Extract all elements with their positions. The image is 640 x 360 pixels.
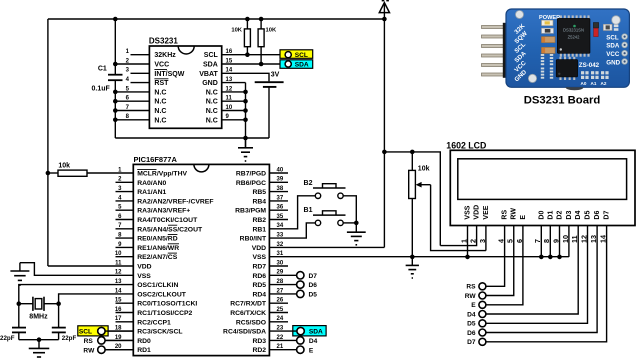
svg-text:VDD: VDD <box>474 205 481 220</box>
wire SCL connector to PIC pin 18 <box>105 330 133 332</box>
svg-text:17: 17 <box>115 316 122 322</box>
svg-text:3V: 3V <box>271 72 280 79</box>
wire potentiometer wiper to LCD VEE <box>431 185 486 251</box>
svg-text:RD0: RD0 <box>137 338 151 345</box>
wire DS3231 pin 9 (N.C) <box>222 119 246 121</box>
svg-text:15: 15 <box>115 298 122 304</box>
svg-text:RD3: RD3 <box>252 338 266 345</box>
pin label RE1/AN6/WR PIC <box>137 244 179 252</box>
pin number 9 PIC <box>118 242 122 248</box>
connector RW (to LCD) <box>465 292 486 300</box>
pin number 5 LCD (rotated) <box>506 239 515 243</box>
wire PIC pin 32 stub <box>0 0 1 1</box>
pin number 20 PIC <box>115 344 122 350</box>
svg-text:VBAT: VBAT <box>199 71 218 78</box>
wire PIC pin 11 stub <box>0 0 1 1</box>
pin label RA5/AN4/SS/C2OUT PIC <box>137 225 203 233</box>
push button B1 <box>313 211 346 226</box>
svg-text:RA5/AN4/SS/C2OUT: RA5/AN4/SS/C2OUT <box>137 226 203 233</box>
pin number 10 LCD (rotated) <box>561 235 570 243</box>
svg-text:36: 36 <box>277 205 284 211</box>
pin label RD0 PIC <box>137 338 151 345</box>
pin number 11 LCD (rotated) <box>570 235 579 243</box>
wire DS3231 pin 10 (N.C) <box>222 110 246 112</box>
pin label GND DS3231 <box>202 80 218 87</box>
svg-text:RS: RS <box>502 210 509 220</box>
pin label RB5 PIC <box>252 189 266 196</box>
svg-text:N.C: N.C <box>206 89 218 96</box>
chip PIC16F877A body <box>133 164 269 355</box>
junction ground bus / potentiometer <box>410 255 415 260</box>
svg-text:Z5242: Z5242 <box>568 35 581 40</box>
svg-text:1602 LCD: 1602 LCD <box>446 140 486 150</box>
pin label SCL DS3231 <box>204 52 219 59</box>
photo DS3231 RTC module board <box>482 9 630 90</box>
svg-text:24: 24 <box>277 316 284 322</box>
wire PIC pin 38 stub <box>269 191 288 193</box>
pin label RB1 PIC <box>252 226 266 233</box>
pin label RD5 PIC <box>252 282 266 289</box>
wire DS3231 GND pin 13 to NC bus <box>222 82 246 84</box>
wire DS3231 pin 4 (RST) <box>131 82 150 84</box>
connector D6 (to PIC pin 28) <box>297 281 318 289</box>
wire VSS pin 12 to ground <box>20 263 133 276</box>
capacitor C1 <box>108 75 123 81</box>
pin label RB7/PGD PIC <box>236 171 266 178</box>
junction ground link / N.C bus <box>243 136 248 141</box>
junction rail / R1 <box>245 17 250 22</box>
wire LCD pin 2 VDD to +5V <box>440 226 476 246</box>
pin label D7 LCD (rotated) <box>604 211 611 220</box>
wire LCD pin 11 D4 to D4 connector <box>486 226 578 315</box>
pin number 30 PIC <box>277 260 284 266</box>
svg-text:RW: RW <box>83 347 95 354</box>
pin label VDD PIC <box>137 264 151 271</box>
svg-text:RW: RW <box>465 293 477 300</box>
wire PIC pin 30 stub <box>269 265 288 267</box>
svg-text:39: 39 <box>277 177 284 183</box>
pin label RC3/SCK/SCL PIC <box>137 329 182 336</box>
wire bottom ground link under DS3231 <box>115 137 269 139</box>
junction crystal left node <box>17 301 22 306</box>
wire OSC1 pin 13 to crystal <box>19 285 134 304</box>
wire PIC pin 9 stub <box>116 246 134 248</box>
pin label RA4/T0CKI/C1OUT PIC <box>137 217 198 224</box>
ground symbol at PIC VSS pin 12 <box>10 263 29 285</box>
svg-text:E: E <box>520 215 527 220</box>
wire LCD pin 4 RS to RS connector <box>486 226 505 287</box>
pin label N.C DS3231 <box>206 117 218 124</box>
pin number 6 LCD (rotated) <box>515 239 524 243</box>
wire PIC pin 13 stub <box>0 0 1 1</box>
wire PIC pin 1 stub <box>0 0 1 1</box>
wire DS3231 pin 7 (N.C) <box>115 110 149 112</box>
svg-text:ZS-042: ZS-042 <box>579 62 600 69</box>
pin label SDA DS3231 <box>203 62 218 69</box>
svg-text:D6: D6 <box>309 282 318 289</box>
pin label RC6/TX/CK PIC <box>230 310 266 317</box>
svg-text:RE1/AN6/WR: RE1/AN6/WR <box>137 245 179 252</box>
svg-text:D5: D5 <box>584 211 591 220</box>
wire DS3231 pin 5 (N.C) <box>115 91 149 93</box>
junction buttons ground node <box>354 221 359 226</box>
pin number 23 PIC <box>277 326 284 332</box>
connector D4 (to PIC pin 22) <box>297 337 318 345</box>
connector SCL (to DS3231) yellow tag <box>280 50 313 59</box>
pin label N.C DS3231 <box>154 108 166 115</box>
pin label VBAT DS3231 <box>199 71 218 78</box>
svg-text:D4: D4 <box>467 311 476 318</box>
junction rail / R2 <box>259 17 264 22</box>
wire PIC pin 3 stub <box>116 191 134 193</box>
connector E (to LCD) <box>471 301 486 309</box>
pin label VDD PIC <box>252 245 266 252</box>
pin number 9 DS3231 <box>226 114 230 120</box>
wire LCD pin 6 E to E connector <box>486 226 523 305</box>
junction ground bus / LCD pin 1 <box>465 255 470 260</box>
pin label D1 LCD (rotated) <box>547 211 554 220</box>
svg-text:D5: D5 <box>309 292 318 299</box>
pin label D2 LCD (rotated) <box>556 211 563 220</box>
svg-text:10k: 10k <box>418 165 430 172</box>
potentiometer VR1 10k contrast <box>409 152 431 257</box>
junction ground bus / LCD pin 8 <box>548 255 553 260</box>
wire PIC pin 28 to D6 connector <box>269 284 296 286</box>
svg-text:SCL: SCL <box>606 34 619 41</box>
svg-text:A2: A2 <box>601 81 607 86</box>
pin label RB2 PIC <box>252 217 266 224</box>
svg-text:POWER: POWER <box>539 15 560 21</box>
svg-text:N.C: N.C <box>154 108 166 115</box>
svg-text:22pF: 22pF <box>0 335 15 342</box>
svg-text:D7: D7 <box>309 273 318 280</box>
pin number 26 PIC <box>277 298 284 304</box>
pin number 12 PIC <box>115 270 122 276</box>
svg-text:DS3231SN: DS3231SN <box>563 28 584 33</box>
wire PIC pin 39 stub <box>269 181 288 183</box>
label DS3231 Board caption <box>524 94 601 106</box>
svg-text:VSS: VSS <box>464 205 471 219</box>
pin number 8 DS3231 <box>126 114 130 120</box>
wire DS3231 pin 2 (VCC) <box>115 63 149 65</box>
pin number 19 PIC <box>115 335 122 341</box>
wire PIC pin 34 to button B2 <box>269 196 315 229</box>
svg-text:OSC2/CLKOUT: OSC2/CLKOUT <box>137 291 187 298</box>
pin number 13 LCD (rotated) <box>589 235 598 243</box>
wire LCD pin 8 D1 to ground bus <box>549 226 551 257</box>
svg-text:VCC: VCC <box>606 51 620 58</box>
wire PIC pin 19 stub <box>105 339 133 341</box>
junction VCC branch at DS3231 pin 2 <box>113 62 118 67</box>
svg-text:10k: 10k <box>58 162 70 169</box>
svg-text:RC6/TX/CK: RC6/TX/CK <box>230 310 266 317</box>
svg-text:10K: 10K <box>231 28 242 34</box>
wire PIC pin 24 stub <box>269 321 288 323</box>
svg-text:26: 26 <box>277 298 284 304</box>
svg-text:N.C: N.C <box>206 108 218 115</box>
pin label N.C DS3231 <box>206 99 218 106</box>
connector SDA (to DS3231) cyan tag <box>280 60 313 69</box>
wire PIC pin 22 to D4 connector <box>269 339 296 341</box>
svg-text:RC1/T1OSI/CCP2: RC1/T1OSI/CCP2 <box>137 310 192 317</box>
svg-text:RS: RS <box>84 338 94 345</box>
pin label OSC2/CLKOUT PIC <box>137 291 187 298</box>
pin number 31 PIC <box>277 251 284 257</box>
wire VDD pin 11 to +5V rail <box>48 265 133 267</box>
svg-text:B2: B2 <box>304 180 313 187</box>
pin label D4 LCD (rotated) <box>575 211 582 220</box>
svg-text:N.C: N.C <box>206 117 218 124</box>
wire PIC pin 21 stub <box>0 0 1 1</box>
svg-text:RB4: RB4 <box>252 198 266 205</box>
svg-text:RC7/RX/DT: RC7/RX/DT <box>230 301 267 308</box>
label chip title PIC16F877A <box>134 155 178 164</box>
wire +5V vertical down right side to VDD pin 32 <box>383 19 385 247</box>
wire PIC pin 23 to SDA connector <box>269 330 297 332</box>
svg-text:SCL: SCL <box>79 329 92 336</box>
svg-text:C1: C1 <box>98 66 107 73</box>
svg-text:10: 10 <box>115 251 122 257</box>
pin number 38 PIC <box>277 186 284 192</box>
pin label RA1/AN1 PIC <box>137 189 166 196</box>
pin number 3 PIC <box>118 186 122 192</box>
svg-text:OSC1/CLKIN: OSC1/CLKIN <box>137 282 178 289</box>
wire PIC pin 33 stub <box>0 0 1 1</box>
pin number 12 DS3231 <box>226 86 233 92</box>
wire PIC pin 20 stub <box>105 349 133 351</box>
wire PIC pin 22 stub <box>0 0 1 1</box>
pin label RB4 PIC <box>252 198 266 205</box>
svg-text:RB0/INT: RB0/INT <box>240 236 267 243</box>
pin label RC5/SDO PIC <box>236 319 266 326</box>
svg-text:RS: RS <box>466 284 476 291</box>
svg-text:37: 37 <box>277 195 284 201</box>
label 1602 LCD title <box>446 140 486 150</box>
svg-text:RA4/T0CKI/C1OUT: RA4/T0CKI/C1OUT <box>137 217 198 224</box>
pin number 28 PIC <box>277 279 284 285</box>
junction DS3231 pin 8 <box>113 118 118 123</box>
wire DS3231 pin 3 (INT/SQW) <box>131 72 150 74</box>
svg-text:22pF: 22pF <box>62 335 77 342</box>
wire PIC pin 40 stub <box>269 172 288 174</box>
pin label RA3/AN3/VREF+ PIC <box>137 208 190 215</box>
pin number 18 PIC <box>115 326 122 332</box>
svg-text:RA3/AN3/VREF+: RA3/AN3/VREF+ <box>137 208 190 215</box>
pin label RE0/AN5/RD PIC <box>137 235 178 243</box>
connector D7 (to PIC pin 29) <box>297 272 318 280</box>
svg-text:PIC16F877A: PIC16F877A <box>134 155 178 164</box>
svg-text:VDD: VDD <box>137 264 151 271</box>
wire PIC pin 5 stub <box>116 209 134 211</box>
pin number 2 LCD (rotated) <box>468 239 477 243</box>
svg-text:A1: A1 <box>591 81 597 86</box>
pin label RD7 PIC <box>252 264 266 271</box>
junction N.C bus pin 11 <box>243 99 248 104</box>
pin number 1 DS3231 <box>126 49 130 55</box>
svg-text:N.C: N.C <box>154 89 166 96</box>
wire LCD pin 13 D6 to D6 connector <box>486 226 597 333</box>
wire PIC pin 2 stub <box>116 181 134 183</box>
pin number 16 DS3231 <box>226 49 233 55</box>
pin number 39 PIC <box>277 177 284 183</box>
junction crystal right node <box>56 301 61 306</box>
pin number 5 PIC <box>118 205 122 211</box>
svg-text:D4: D4 <box>575 211 582 220</box>
pin number 12 LCD (rotated) <box>579 235 588 243</box>
ground symbol crystal <box>29 340 50 360</box>
svg-text:D6: D6 <box>594 211 601 220</box>
label chip title DS3231 <box>149 36 178 45</box>
wire PIC pin 31 stub <box>0 0 1 1</box>
svg-text:SDA: SDA <box>295 61 309 68</box>
wire PIC pin 33 to button B1 <box>269 223 315 238</box>
pin label RB6/PGC PIC <box>236 180 266 187</box>
svg-text:D2: D2 <box>556 211 563 220</box>
svg-text:VEE: VEE <box>483 205 490 219</box>
svg-text:RC0/T1OSO/T1CKI: RC0/T1OSO/T1CKI <box>137 301 197 308</box>
pin number 15 DS3231 <box>226 58 233 64</box>
svg-text:RB7/PGD: RB7/PGD <box>236 171 266 178</box>
svg-text:RD1: RD1 <box>137 347 151 354</box>
wire LCD pin 3 VEE stub <box>485 226 487 251</box>
pin label N.C DS3231 <box>154 117 166 124</box>
pin number 14 LCD (rotated) <box>598 235 607 243</box>
pin label RD1 PIC <box>137 347 151 354</box>
capacitor C3 22pF right <box>52 304 66 340</box>
module 1602 LCD body <box>450 150 635 225</box>
wire PIC pin 14 stub <box>0 0 1 1</box>
wire DS3231 pin 8 (N.C) <box>115 119 149 121</box>
pin label RD2 PIC <box>252 347 266 354</box>
connector SCL (to PIC pin 18) yellow tag <box>78 326 108 336</box>
chip DS3231 body <box>149 46 221 128</box>
pin number 22 PIC <box>277 335 284 341</box>
wire LCD pin 5 RW to RW connector <box>486 226 514 296</box>
pin number 11 DS3231 <box>226 96 233 102</box>
wire PIC pin 21 to E connector <box>269 349 296 351</box>
pin number 34 PIC <box>277 223 284 229</box>
junction ground bus / LCD pin 9 <box>557 255 562 260</box>
wire PIC pin 15 stub <box>116 302 134 304</box>
pin label VDD LCD (rotated) <box>474 205 481 220</box>
svg-text:RB1: RB1 <box>252 226 266 233</box>
svg-text:SDA: SDA <box>606 43 620 50</box>
pin number 37 PIC <box>277 195 284 201</box>
pin number 15 PIC <box>115 298 122 304</box>
connector D5 (to PIC pin 27) <box>297 290 318 298</box>
wire PIC pin 29 stub <box>0 0 1 1</box>
svg-text:SCL: SCL <box>295 52 308 59</box>
junction +5V distribution node <box>382 150 387 155</box>
junction DS3231 pin 6 <box>113 99 118 104</box>
connector D6 (to LCD) <box>467 329 486 337</box>
battery BT1 3V <box>255 82 284 138</box>
pin number 1 PIC <box>118 167 122 173</box>
pin number 1 LCD (rotated) <box>459 239 468 243</box>
junction rail / DS3231 VCC branch <box>113 17 118 22</box>
junction N.C bus pin 10 <box>243 108 248 113</box>
pin label D3 LCD (rotated) <box>566 211 573 220</box>
svg-text:INT/SQW: INT/SQW <box>154 71 184 78</box>
svg-text:VSS: VSS <box>137 273 151 280</box>
wire PIC pin 37 stub <box>269 200 288 202</box>
svg-text:D7: D7 <box>604 211 611 220</box>
svg-text:RD4: RD4 <box>252 291 266 298</box>
pin number 10 DS3231 <box>226 105 233 111</box>
pin number 24 PIC <box>277 316 284 322</box>
svg-text:A0: A0 <box>581 81 587 86</box>
svg-text:RB3/PGM: RB3/PGM <box>235 208 266 215</box>
left +5V rail wire down to PIC <box>47 19 49 266</box>
pin label RC1/T1OSI/CCP2 PIC <box>137 310 192 317</box>
svg-text:D5: D5 <box>467 321 476 328</box>
wire DS3231 SCL pin 16 to SCL connector <box>222 54 286 56</box>
pin label RST DS3231 <box>154 79 169 87</box>
wire PIC pin 6 stub <box>116 219 134 221</box>
label 8MHz crystal value <box>29 313 48 320</box>
connector SDA (to PIC pin 23) cyan tag <box>293 326 326 336</box>
wire C1 bottom to N.C pins 5-8 and down <box>114 80 116 138</box>
svg-text:RE2/AN7/CS: RE2/AN7/CS <box>137 254 178 261</box>
connector D4 (to LCD) <box>467 311 486 319</box>
pin label D6 LCD (rotated) <box>594 211 601 220</box>
resistor R3 10k MCLR pull-up <box>48 170 133 176</box>
pin label RE2/AN7/CS PIC <box>137 253 178 261</box>
pin label RB3/PGM PIC <box>235 208 266 215</box>
label 10k potentiometer <box>418 165 430 172</box>
wire PIC pin 29 to D7 connector <box>269 274 296 276</box>
pin label 32KHz DS3231 <box>154 52 176 59</box>
wire LCD pin 9 D2 to ground bus <box>559 226 561 257</box>
wire right N.C bus down to ground <box>245 83 247 148</box>
pin label VCC DS3231 <box>154 62 169 69</box>
svg-text:RA2/AN2/VREF-/CVREF: RA2/AN2/VREF-/CVREF <box>137 198 213 205</box>
svg-text:RB5: RB5 <box>252 189 266 196</box>
svg-text:RE0/AN5/RD: RE0/AN5/RD <box>137 236 178 243</box>
svg-text:RD6: RD6 <box>252 273 266 280</box>
connector E (to PIC pin 21) <box>297 346 314 354</box>
pin number 6 DS3231 <box>126 96 130 102</box>
svg-text:0.1uF: 0.1uF <box>92 85 111 92</box>
svg-text:N.C: N.C <box>154 117 166 124</box>
pin label RC7/RX/DT PIC <box>230 301 267 308</box>
wire PIC pin 27 stub <box>0 0 1 1</box>
svg-text:VCC: VCC <box>154 62 169 69</box>
wire OSC2 pin 14 to crystal <box>59 294 134 304</box>
svg-text:35: 35 <box>277 214 284 220</box>
pin label OSC1/CLKIN PIC <box>137 282 178 289</box>
pin label VSS LCD (rotated) <box>464 205 471 219</box>
connector RS (to PIC pin 19) <box>84 337 105 345</box>
pin label RA2/AN2/VREF-/CVREF PIC <box>137 198 213 205</box>
wire PIC pin 25 stub <box>269 312 288 314</box>
wire LCD pin 10 D3 to ground bus end <box>568 226 570 257</box>
pin number 25 PIC <box>277 307 284 313</box>
junction ground bus / LCD pin 7 <box>539 255 544 260</box>
junction +5V / potentiometer <box>410 150 415 155</box>
junction DS3231 pin 5 <box>113 90 118 95</box>
wire LCD pin 12 D5 to D5 connector <box>486 226 588 324</box>
pin number 7 DS3231 <box>126 105 130 111</box>
ground symbol potentiometer <box>406 257 419 278</box>
pin number 4 LCD (rotated) <box>496 239 505 243</box>
pin number 33 PIC <box>277 233 284 239</box>
junction DS3231 pin 7 <box>113 108 118 113</box>
pin label RD3 PIC <box>252 338 266 345</box>
pin label MCLR/Vpp/THV PIC <box>137 169 187 177</box>
pin label VSS PIC <box>137 273 151 280</box>
pin number 35 PIC <box>277 214 284 220</box>
